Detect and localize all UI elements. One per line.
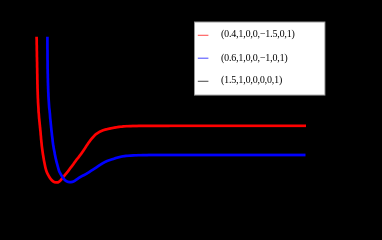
legend label 2 <box>221 54 288 64</box>
legend line blue <box>198 57 209 59</box>
legend line red <box>198 34 209 36</box>
curve red (0.4,1,0,0,-1.5,0,1) <box>37 37 306 183</box>
legend line black <box>198 80 209 82</box>
legend box <box>195 22 325 95</box>
curve blue (0.6,1,0,0,-1,0,1) <box>47 37 305 182</box>
legend label 3 <box>221 76 282 86</box>
legend label 1 <box>221 30 295 40</box>
